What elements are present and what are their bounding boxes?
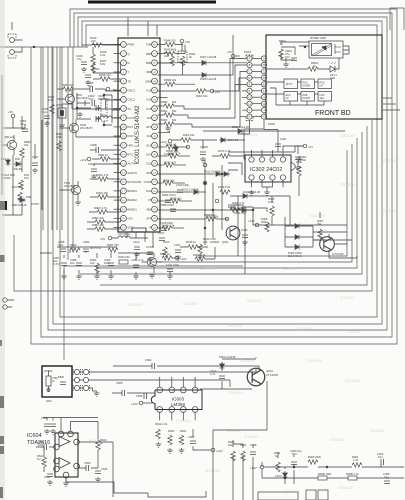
svg-text:C643: C643 xyxy=(44,475,51,479)
svg-text:R083: R083 xyxy=(161,118,168,122)
IC302 pin bottom 8 xyxy=(280,175,285,180)
node +5V near PN01 xyxy=(231,54,235,58)
svg-text:Gxxxxx: Gxxxxx xyxy=(247,298,263,303)
key SM05 AKB DOWN xyxy=(301,92,315,102)
IC604 pin 7 xyxy=(58,431,64,437)
svg-text:Gxxxxx: Gxxxxx xyxy=(226,428,242,433)
svg-text:K: K xyxy=(249,115,251,119)
svg-text:100k: 100k xyxy=(268,200,274,204)
SV601 pot R xyxy=(46,376,51,386)
wire loop 5 xyxy=(60,25,377,317)
connector boxes bottom edge xyxy=(306,490,316,500)
svg-text:UP: UP xyxy=(286,97,290,100)
wire mid horizontals xyxy=(230,208,343,227)
svg-text:IC604: IC604 xyxy=(27,433,42,439)
svg-text:IC302 24C02: IC302 24C02 xyxy=(250,167,282,173)
svg-text:200k: 200k xyxy=(261,220,267,224)
IC001 pin 16 EXT.MUTE xyxy=(121,179,127,185)
IC001 pin 36 K21 xyxy=(152,97,158,103)
svg-text:+5V: +5V xyxy=(227,50,232,54)
svg-text:C003: C003 xyxy=(146,252,153,256)
svg-text:100: 100 xyxy=(90,261,95,265)
svg-text:K22: K22 xyxy=(147,89,152,93)
wire vertical net x213 xyxy=(212,183,214,238)
IC001 pin 32 S2L xyxy=(152,133,158,139)
transistor T003 xyxy=(71,185,80,194)
svg-text:+5V: +5V xyxy=(308,145,313,149)
svg-text:+5V: +5V xyxy=(8,110,13,114)
svg-text:SOL: SOL xyxy=(146,189,152,193)
resistor R034 3k pot xyxy=(178,51,187,62)
transistor T002 xyxy=(69,123,78,132)
svg-text:6.8k: 6.8k xyxy=(100,62,106,66)
svg-text:DOWN: DOWN xyxy=(303,85,311,88)
svg-text:Gxxxxx: Gxxxxx xyxy=(227,323,243,328)
IC001 pin 22 IF xyxy=(152,225,158,231)
svg-text:R622 2.2k: R622 2.2k xyxy=(155,422,168,426)
wire PN01-PN02 pin E xyxy=(252,83,261,85)
svg-text:RB2: RB2 xyxy=(146,61,152,65)
wire keys row1 xyxy=(266,82,318,94)
svg-text:Gxxxxx: Gxxxxx xyxy=(345,329,361,334)
IC001 pin 7 OSC2 xyxy=(121,97,127,103)
wire front bd gnd stub xyxy=(285,58,287,62)
node +12V row14 xyxy=(168,139,172,143)
scan mark left 4 xyxy=(0,487,3,498)
svg-text:R023 4.7k: R023 4.7k xyxy=(193,253,206,257)
svg-text:C618: C618 xyxy=(250,443,257,447)
wire pn02 to ic302 xyxy=(244,120,264,160)
IC001 pin 25 VT xyxy=(152,197,158,203)
svg-text:VT: VT xyxy=(148,198,152,202)
svg-text:R0SB 10k: R0SB 10k xyxy=(164,78,177,82)
ground IC604 bottom xyxy=(65,478,67,482)
wire bus verticals to connector xyxy=(230,59,247,128)
svg-text:R0AU 47k: R0AU 47k xyxy=(96,173,109,177)
connector PN01 pin H xyxy=(247,101,252,106)
svg-text:C605: C605 xyxy=(116,381,123,385)
wire loop 4 xyxy=(53,21,382,324)
svg-text:Gxxxxx: Gxxxxx xyxy=(338,485,354,490)
connector PN02 pin F xyxy=(261,88,266,93)
svg-text:Gxxxxx: Gxxxxx xyxy=(176,418,192,423)
IC001 pin 17 BAND3 xyxy=(121,188,127,194)
wire PN01-PN02 pin C xyxy=(252,70,261,72)
svg-text:TM4: TM4 xyxy=(146,43,152,47)
svg-text:TE: TE xyxy=(128,79,132,83)
wire left col verticals xyxy=(2,75,42,215)
IC603 pin top 3 xyxy=(180,387,186,393)
svg-text:6.2p: 6.2p xyxy=(42,110,48,114)
svg-text:R44 6.2k: R44 6.2k xyxy=(12,185,23,189)
transistor Q301 xyxy=(226,226,240,240)
connector PN02 pin K xyxy=(261,114,266,119)
node +12V below xyxy=(211,448,215,452)
connector PN02 pin H xyxy=(261,101,266,106)
capacitor C643 xyxy=(47,474,53,476)
ground midband xyxy=(61,274,67,279)
svg-text:4.7k: 4.7k xyxy=(353,458,359,462)
connector PN01 pin C xyxy=(247,69,252,74)
svg-text:Gxxxxx: Gxxxxx xyxy=(240,358,256,363)
IC302 24C02 xyxy=(245,155,291,182)
svg-text:12V: 12V xyxy=(147,116,152,120)
svg-text:2SC1815: 2SC1815 xyxy=(64,184,76,188)
svg-text:IF: IF xyxy=(149,226,152,230)
svg-text:47u: 47u xyxy=(20,122,25,126)
LED KEY1 xyxy=(330,66,335,72)
wire IC001 right row y165 xyxy=(158,164,164,166)
wire top drop 1 xyxy=(127,17,129,36)
svg-text:100u: 100u xyxy=(38,443,44,447)
connector PN01 bracket xyxy=(246,55,253,121)
wire Q604 emitter bus xyxy=(167,366,259,370)
svg-text:6.2k: 6.2k xyxy=(100,53,106,57)
wire IC001 left pin 7 stub xyxy=(114,98,121,100)
connector PN01 pin D xyxy=(247,75,252,80)
IC001 pin 23 AFT xyxy=(152,215,158,221)
svg-text:D08 IN4148: D08 IN4148 xyxy=(12,203,27,207)
connector J001 top-left xyxy=(10,38,15,43)
node +5V left xyxy=(11,114,15,118)
svg-text:M/TV: M/TV xyxy=(286,82,293,86)
svg-text:PN02: PN02 xyxy=(268,122,275,126)
svg-text:D: D xyxy=(249,76,251,80)
IC302 pin top 5 xyxy=(270,157,275,162)
svg-text:C020: C020 xyxy=(93,67,100,71)
SV601 box xyxy=(42,366,72,397)
svg-text:Gxxxxx: Gxxxxx xyxy=(340,295,356,300)
svg-text:Gxxxxx: Gxxxxx xyxy=(243,132,259,137)
node +5V below IC xyxy=(108,236,112,240)
diode D302 xyxy=(293,235,301,240)
wire q604 down xyxy=(258,467,260,470)
svg-text:11A4 48 x3: 11A4 48 x3 xyxy=(288,254,302,258)
wire upper mid lines xyxy=(228,146,303,175)
svg-text:R002 10k: R002 10k xyxy=(196,94,208,98)
svg-text:C603: C603 xyxy=(188,435,195,439)
svg-text:10k: 10k xyxy=(228,443,233,447)
IC604 pin 1 xyxy=(74,439,80,445)
svg-text:QB1 H4: QB1 H4 xyxy=(4,135,14,139)
junction dots bottom xyxy=(293,466,295,468)
diode D301 xyxy=(293,224,301,229)
IC001 pin 41 RB3 xyxy=(152,51,158,57)
wire IC302 vcc xyxy=(283,146,303,150)
svg-text:Gxxxxx: Gxxxxx xyxy=(340,133,356,138)
wire midband bus xyxy=(40,247,215,274)
connector PN02 pin G xyxy=(261,95,266,100)
svg-text:D603 11A148: D603 11A148 xyxy=(219,355,236,359)
svg-text:+12V: +12V xyxy=(131,402,138,406)
svg-text:VDD: VDD xyxy=(128,226,134,230)
wire IC604 top feeds xyxy=(61,417,98,431)
svg-text:10u: 10u xyxy=(378,455,383,459)
svg-text:R058 10k: R058 10k xyxy=(204,213,216,217)
IC603 pin top 2 xyxy=(169,387,175,393)
wire IC001 left pin 4 stub xyxy=(114,71,121,73)
svg-text:Gxxxxx: Gxxxxx xyxy=(340,182,356,187)
node junction +B xyxy=(33,46,35,48)
wire IC001 left pin 12 stub xyxy=(114,144,121,146)
wire IC001 left pin 2 stub xyxy=(114,53,121,55)
IC302 notch xyxy=(291,162,295,171)
svg-text:C: C xyxy=(249,70,251,74)
svg-text:R080: R080 xyxy=(161,100,168,104)
capacitor C606 left xyxy=(144,393,146,399)
wire loop right inner 11 xyxy=(200,150,347,256)
svg-text:R: R xyxy=(128,61,130,65)
transistor QB1 xyxy=(7,140,16,149)
node +P pin9 xyxy=(210,89,214,93)
svg-text:R064 10k: R064 10k xyxy=(183,133,195,137)
svg-text:Gxxxxx: Gxxxxx xyxy=(86,438,102,443)
svg-text:C: C xyxy=(263,70,265,74)
svg-text:+5V: +5V xyxy=(100,237,105,241)
wire IC001 right row y201 xyxy=(158,200,170,202)
svg-text:AFT: AFT xyxy=(146,217,152,221)
svg-text:50V: 50V xyxy=(292,452,297,456)
node supply row y201 xyxy=(215,199,219,203)
IC001 pin 2 Q xyxy=(121,51,127,57)
IC001 pin 35 K20 xyxy=(152,106,158,112)
svg-text:COL: COL xyxy=(146,162,152,166)
wire frontbd exit 3 xyxy=(383,109,400,111)
svg-text:10p: 10p xyxy=(89,97,94,101)
svg-text:OSC2: OSC2 xyxy=(128,98,136,102)
diode D311 xyxy=(236,129,244,134)
wire pwr pin feed xyxy=(82,44,121,47)
svg-text:G: G xyxy=(248,95,250,99)
IC603 pin bottom 5 xyxy=(157,407,163,413)
capacitor C640 100u xyxy=(44,424,50,426)
svg-text:D008 11A148: D008 11A148 xyxy=(200,77,217,81)
main IC001 body xyxy=(118,38,160,232)
scan mark left 1 xyxy=(0,255,5,262)
svg-text:BAND3: BAND3 xyxy=(128,189,138,193)
svg-text:100k: 100k xyxy=(48,98,54,102)
wire PN01-PN02 pin H xyxy=(252,103,261,105)
wire C640 feed xyxy=(43,418,61,421)
wire midband frame xyxy=(64,266,243,360)
svg-text:RB3: RB3 xyxy=(146,52,152,56)
IC001 pin 5 TE xyxy=(121,78,127,84)
svg-text:+12V: +12V xyxy=(248,219,255,223)
connector PN01 pin K xyxy=(247,114,252,119)
wire vertical net x222 xyxy=(221,165,223,230)
wire atc row xyxy=(158,131,170,133)
IC001 pin 14 AUTV xyxy=(121,161,127,167)
wire osc pins xyxy=(106,89,121,109)
svg-text:AUTV: AUTV xyxy=(128,162,136,166)
wire IC001 left pin 14 stub xyxy=(114,162,121,164)
wire IC604 loop bottom xyxy=(65,478,67,482)
svg-text:L50 35uH: L50 35uH xyxy=(118,232,130,236)
ground IC603 cluster xyxy=(156,442,162,447)
connector PN01 pin F xyxy=(247,88,252,93)
IC302 pin top 1 xyxy=(249,157,254,162)
IC604 TDA2616 xyxy=(27,433,78,477)
node +5V r051 xyxy=(106,87,110,91)
node +12V left of IC603 xyxy=(139,401,143,405)
svg-text:SnO: SnO xyxy=(146,153,152,157)
svg-text:100: 100 xyxy=(24,176,29,180)
svg-text:OSC1: OSC1 xyxy=(128,89,136,93)
svg-text:R034 1k: R034 1k xyxy=(160,252,171,256)
svg-text:47p: 47p xyxy=(77,57,82,61)
svg-text:+12V: +12V xyxy=(80,158,87,162)
svg-text:+5V: +5V xyxy=(185,40,190,44)
node +12V kdo xyxy=(87,157,91,161)
wire connector feeds xyxy=(212,78,247,117)
IC604 pin 4 xyxy=(54,466,60,472)
svg-text:PN01: PN01 xyxy=(244,50,251,54)
svg-text:10u: 10u xyxy=(70,261,75,265)
IC001 pin 13 BTC xyxy=(121,151,127,157)
wire IC001 left pin 10 stub xyxy=(114,126,121,128)
IC001 pin 28 SPL xyxy=(152,170,158,176)
svg-text:CTC1445: CTC1445 xyxy=(332,252,344,256)
key SM01 M/TV xyxy=(284,79,298,89)
resistor R641 xyxy=(42,457,46,467)
IC302 pin top 3 xyxy=(259,157,264,162)
wire loop right inner 9 xyxy=(96,138,357,268)
transistor Q302 xyxy=(320,237,335,252)
wire IC001 left pin 6 stub xyxy=(114,89,121,91)
wire vertical net x205 xyxy=(204,160,206,245)
wire loop right inner 8 xyxy=(80,132,362,274)
IC604 pin 9 xyxy=(68,431,74,437)
svg-text:IC001 LUKS-5140-M2: IC001 LUKS-5140-M2 xyxy=(135,105,141,165)
diode D012 xyxy=(222,172,230,177)
IC603 pin top 4 xyxy=(192,387,198,393)
wire loop right inner 10 xyxy=(150,144,352,262)
wire cluster feeds xyxy=(233,440,253,486)
IC001 pin 11 KDO xyxy=(121,133,127,139)
wire PN01-PN02 pin F xyxy=(252,90,261,92)
IC603 LM358 xyxy=(151,390,202,410)
IC001 pin 12 HPD xyxy=(121,142,127,148)
connector JV601 pins xyxy=(74,369,79,374)
svg-text:C011 100p: C011 100p xyxy=(166,263,179,267)
transistor T004 xyxy=(147,257,156,266)
connector SP601 left edge xyxy=(3,298,7,302)
IC302 pin bottom 4 xyxy=(259,175,264,180)
IC001 pin 3 R xyxy=(121,60,127,66)
crystal X001 xyxy=(58,108,66,118)
svg-text:Y: Y xyxy=(128,70,130,74)
svg-text:R016 1k: R016 1k xyxy=(186,240,197,244)
IC001 pin 38 SW6 xyxy=(152,78,158,84)
svg-text:LM358: LM358 xyxy=(171,402,185,407)
svg-text:DOWN: DOWN xyxy=(303,97,311,100)
svg-text:C018 180p: C018 180p xyxy=(160,221,174,225)
black box PC601 xyxy=(0,201,7,210)
IC001 pin 10 RST xyxy=(121,124,127,130)
svg-text:G: G xyxy=(263,95,265,99)
wire IC001 right row y228 xyxy=(158,227,162,229)
IC603 pin bottom 6 xyxy=(169,407,175,413)
wire top drop 3 xyxy=(156,25,158,36)
svg-text:IC603: IC603 xyxy=(172,397,185,402)
svg-text:Gxxxxx: Gxxxxx xyxy=(283,266,299,271)
node supply row y165 xyxy=(203,163,207,167)
wire frontbd exit 2 xyxy=(383,103,396,105)
svg-text:10u: 10u xyxy=(384,475,389,479)
svg-text:C602: C602 xyxy=(145,358,152,362)
ground IC604 caps xyxy=(44,429,50,434)
node +12V bottom left xyxy=(260,465,264,469)
svg-text:Gxxxxx: Gxxxxx xyxy=(330,437,346,442)
svg-text:Gxxxxx: Gxxxxx xyxy=(183,301,199,306)
svg-text:D312 11A4 48: D312 11A4 48 xyxy=(243,190,260,194)
IC604 opamp A triangle xyxy=(59,437,70,447)
IC001 pin 37 K22 xyxy=(152,87,158,93)
wire loop right inner 7 xyxy=(100,126,367,285)
node supply row y147 xyxy=(186,145,190,149)
svg-text:2SC1815Y: 2SC1815Y xyxy=(80,126,93,130)
svg-text:010904: 010904 xyxy=(210,240,219,244)
svg-text:R0?0 4.7k: R0?0 4.7k xyxy=(218,149,231,153)
wire loop outer2 xyxy=(41,13,392,337)
wire left verticals mid xyxy=(31,47,73,260)
wire IC001 left pin 16 stub xyxy=(114,181,121,183)
wire IC604 pin1 out xyxy=(79,442,113,497)
wire top drop 2 xyxy=(147,21,149,36)
wire Q604 base xyxy=(200,362,252,389)
wire PN01-PN02 pin J xyxy=(252,109,261,111)
key SM02 POS DOWN xyxy=(301,79,315,89)
svg-text:R624: R624 xyxy=(180,429,187,433)
connector PN02 pin E xyxy=(261,82,266,87)
svg-text:R030 150: R030 150 xyxy=(118,255,130,259)
svg-text:HPD: HPD xyxy=(128,143,134,147)
wire keys bottom bus xyxy=(270,88,324,105)
wire PN01-PN02 pin K xyxy=(252,116,261,118)
svg-text:SB4: SB4 xyxy=(146,70,152,74)
IC604 pin 2 xyxy=(54,444,60,450)
wire k20 row xyxy=(158,96,168,98)
diode D008 xyxy=(200,73,208,78)
wire IC001 left pin 11 stub xyxy=(114,135,121,137)
diode D312 xyxy=(241,194,249,199)
wire IC001 left pin 5 stub xyxy=(114,80,121,82)
wire diode stack xyxy=(285,217,313,247)
svg-text:K21: K21 xyxy=(147,98,152,102)
svg-text:R304 10k: R304 10k xyxy=(234,211,246,215)
svg-text:SEL: SEL xyxy=(320,97,325,100)
connector PN01 pin A xyxy=(247,56,252,61)
wire PN01-PN02 pin B xyxy=(252,64,261,66)
wire IC001 right row y174 xyxy=(158,173,214,175)
svg-text:DOUT: DOUT xyxy=(128,116,136,120)
wire loop right inner 6 xyxy=(14,120,372,291)
node supply row y183 xyxy=(203,181,207,185)
svg-text:K: K xyxy=(263,115,265,119)
IC001 pin 40 RB2 xyxy=(152,60,158,66)
svg-text:+12V: +12V xyxy=(250,466,257,470)
svg-text:FRONT BD: FRONT BD xyxy=(315,110,351,117)
wire bottom verticals xyxy=(213,430,253,500)
svg-text:SASTN: SASTN xyxy=(128,171,137,175)
capacitor C605b xyxy=(95,471,101,473)
svg-text:A: A xyxy=(249,57,251,61)
wire IC001 left pin 15 stub xyxy=(114,172,121,174)
wire IC001 left pin 17 stub xyxy=(114,190,121,192)
capacitor C302 xyxy=(295,157,301,159)
node supply row y219 xyxy=(225,217,229,221)
IC001 pin 30 SnO xyxy=(152,151,158,157)
